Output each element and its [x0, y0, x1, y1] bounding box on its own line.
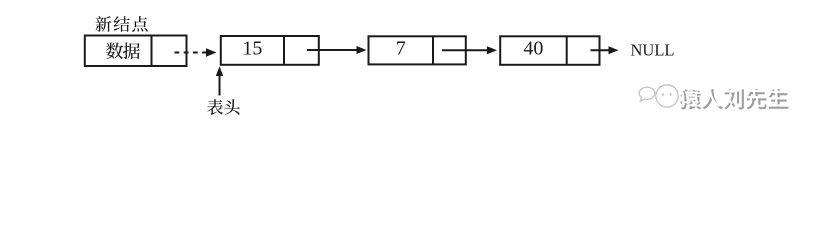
node 7 box: [369, 36, 466, 64]
arrow: node 7 -> node 40: [442, 46, 497, 54]
watermark text 猿人刘先生 (shadow): [680, 89, 788, 110]
label: new node (新结点): [95, 16, 147, 32]
arrow: node 40 -> NULL: [591, 46, 619, 54]
svg-text:15: 15: [242, 38, 262, 60]
svg-text:40: 40: [523, 38, 543, 60]
node 15 box: [221, 36, 319, 65]
dashed arrow: new node -> node 15: [175, 48, 217, 56]
head pointer arrow (表头 up-arrow): [216, 66, 223, 95]
new node data text 数据: [106, 42, 140, 59]
label: head (表头): [207, 99, 240, 115]
watermark icon (speech bubble + face): [639, 85, 678, 107]
node 40 box: [500, 36, 599, 65]
svg-text:NULL: NULL: [631, 40, 675, 59]
new node box: [85, 36, 187, 67]
watermark text 猿人刘先生 (white face): [678, 87, 786, 108]
arrow: node 15 -> node 7: [307, 46, 367, 54]
svg-text:7: 7: [396, 37, 406, 59]
